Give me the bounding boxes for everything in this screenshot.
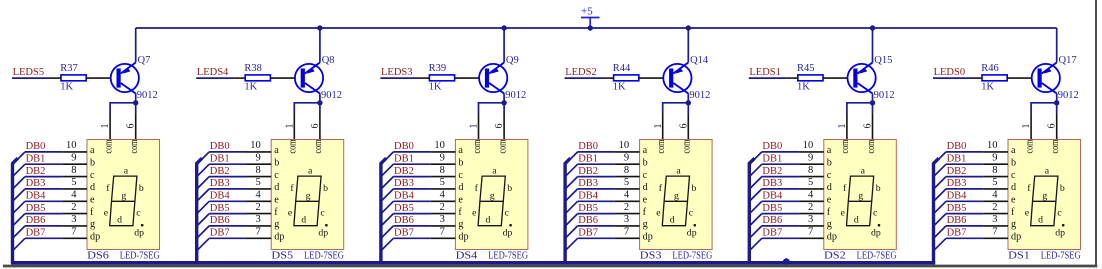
wire R39 right lead to Q9 base <box>455 77 480 79</box>
svg-text:a: a <box>1011 145 1016 156</box>
wire net DB2 <box>578 176 615 178</box>
svg-text:5: 5 <box>992 177 997 188</box>
svg-text:DB4: DB4 <box>394 191 415 202</box>
pin g stub <box>62 225 87 227</box>
wire Q17 collector down <box>1056 94 1058 115</box>
svg-text:LED-7SEG: LED-7SEG <box>672 251 712 262</box>
svg-text:R39: R39 <box>429 63 447 74</box>
svg-text:1: 1 <box>837 124 848 129</box>
svg-text:7: 7 <box>71 227 76 238</box>
svg-text:DB7: DB7 <box>762 228 782 239</box>
svg-text:DB2: DB2 <box>578 166 598 177</box>
wire Q8 collector down <box>319 94 321 115</box>
bus tap DB5 <box>565 214 578 227</box>
svg-text:d: d <box>301 215 306 226</box>
pin 1 com stub <box>293 114 295 140</box>
wire net DB1 <box>25 163 62 165</box>
svg-text:d: d <box>1038 215 1043 226</box>
pin a stub <box>799 151 824 153</box>
wire R38 right lead to Q8 base <box>270 77 295 79</box>
wire net DB0 <box>393 151 430 153</box>
svg-text:4: 4 <box>255 190 261 201</box>
wire Q7 collector down <box>135 94 137 115</box>
transistor Q8 9012 PNP <box>295 55 342 101</box>
wire net DB7 <box>578 237 615 239</box>
svg-text:e: e <box>104 207 109 218</box>
junction rail/Q emitter block 2 <box>317 25 322 30</box>
7seg segment labels <box>841 165 881 238</box>
svg-text:b: b <box>507 183 512 194</box>
wire net DB7 <box>393 237 430 239</box>
resistor R46 1K <box>981 63 1007 93</box>
svg-text:com: com <box>1049 139 1061 153</box>
svg-text:DB1: DB1 <box>947 154 967 165</box>
svg-text:1K: 1K <box>244 82 257 93</box>
svg-text:DB5: DB5 <box>578 203 598 214</box>
wire net DB4 <box>209 200 246 202</box>
svg-text:DB6: DB6 <box>210 215 230 226</box>
bus horizontal bottom <box>11 261 935 265</box>
svg-text:DB4: DB4 <box>578 191 599 202</box>
svg-text:d: d <box>274 182 279 193</box>
svg-text:R37: R37 <box>60 63 78 74</box>
resistor R39 1K <box>429 63 455 93</box>
pin c stub <box>799 176 824 178</box>
bus tap DB3 <box>934 189 947 202</box>
svg-text:6: 6 <box>310 124 321 129</box>
svg-text:LEDS0: LEDS0 <box>934 67 966 78</box>
pin 6 com stub <box>872 114 874 140</box>
pin g stub <box>983 225 1008 227</box>
wire Q17 emitter to +5 rail <box>1056 28 1058 63</box>
7seg digit segments DS4 <box>478 176 505 226</box>
svg-text:c: c <box>1011 170 1016 181</box>
svg-text:4: 4 <box>808 190 814 201</box>
svg-text:9: 9 <box>440 153 445 164</box>
wire R39 left lead <box>418 77 429 79</box>
wire net DB5 <box>209 213 246 215</box>
7seg digit segments DS5 <box>294 176 321 226</box>
pin dp stub <box>247 237 272 239</box>
pin a stub <box>983 151 1008 153</box>
svg-text:e: e <box>274 195 279 206</box>
wire Q8 emitter to +5 rail <box>319 28 321 63</box>
svg-text:d: d <box>643 182 648 193</box>
bus tap DB4 <box>13 201 26 214</box>
wire R37 left lead <box>50 77 61 79</box>
svg-text:DB4: DB4 <box>947 191 968 202</box>
svg-text:g: g <box>643 219 648 230</box>
svg-text:DB3: DB3 <box>578 178 598 189</box>
svg-text:c: c <box>274 170 279 181</box>
svg-text:6: 6 <box>678 124 689 129</box>
svg-text:7: 7 <box>624 227 629 238</box>
pin a stub <box>431 151 456 153</box>
svg-text:LEDS2: LEDS2 <box>565 67 597 78</box>
wire net LEDS0 to R46 <box>933 77 971 79</box>
svg-text:a: a <box>492 165 497 176</box>
svg-text:1: 1 <box>653 124 664 129</box>
svg-text:6: 6 <box>126 124 137 129</box>
svg-text:f: f <box>643 207 647 218</box>
svg-text:a: a <box>676 165 681 176</box>
bus DB vertical block 1 <box>13 158 18 263</box>
svg-text:5: 5 <box>624 177 629 188</box>
bus tap DB0 <box>381 152 394 165</box>
svg-text:4: 4 <box>71 190 77 201</box>
svg-text:b: b <box>90 157 95 168</box>
pin b stub <box>983 163 1008 165</box>
svg-text:10: 10 <box>250 140 261 151</box>
pin 1 com stub <box>846 114 848 140</box>
bus tap DB5 <box>749 214 762 227</box>
pin 6 com stub <box>687 114 689 140</box>
svg-text:b: b <box>876 183 881 194</box>
7-segment display DS6 LED-7SEG body <box>87 140 160 250</box>
pin 1 com stub <box>478 114 480 140</box>
wire net DB3 <box>393 188 430 190</box>
wire net DB3 <box>25 188 62 190</box>
svg-text:DS5: DS5 <box>271 251 293 262</box>
7seg digit segments DS2 <box>847 176 874 226</box>
svg-text:f: f <box>90 207 94 218</box>
svg-text:c: c <box>1057 208 1062 219</box>
svg-text:7: 7 <box>255 227 260 238</box>
svg-text:g: g <box>490 191 495 202</box>
svg-text:LEDS1: LEDS1 <box>749 67 781 78</box>
svg-text:c: c <box>873 208 878 219</box>
wire jumper to com pin 1 <box>847 103 873 114</box>
wire net DB1 <box>762 163 799 165</box>
svg-text:Q7: Q7 <box>138 55 151 66</box>
wire Q14 emitter to +5 rail <box>687 28 689 63</box>
svg-text:c: c <box>505 208 510 219</box>
svg-text:1K: 1K <box>613 82 626 93</box>
svg-text:LED-7SEG: LED-7SEG <box>857 251 897 262</box>
svg-text:8: 8 <box>255 165 260 176</box>
pin f stub <box>983 213 1008 215</box>
svg-text:g: g <box>306 191 311 202</box>
pin g stub <box>431 225 456 227</box>
svg-text:b: b <box>274 157 279 168</box>
svg-text:1: 1 <box>100 124 111 129</box>
wire net DB3 <box>762 188 799 190</box>
svg-text:c: c <box>136 208 141 219</box>
svg-text:LED-7SEG: LED-7SEG <box>120 251 160 262</box>
svg-text:e: e <box>841 207 846 218</box>
wire net DB4 <box>762 200 799 202</box>
bus tap DB2 <box>381 177 394 190</box>
wire net LEDS5 to R37 <box>12 77 50 79</box>
bus tap DB2 <box>565 177 578 190</box>
pin d stub <box>247 188 272 190</box>
svg-text:c: c <box>689 208 694 219</box>
svg-text:DB7: DB7 <box>394 228 414 239</box>
svg-text:DB5: DB5 <box>947 203 967 214</box>
wire net DB3 <box>209 188 246 190</box>
wire net DB1 <box>393 163 430 165</box>
svg-text:9012: 9012 <box>137 90 158 101</box>
svg-text:DB0: DB0 <box>210 141 230 152</box>
svg-text:d: d <box>854 215 859 226</box>
bus tap DB4 <box>749 201 762 214</box>
bus tap DB2 <box>13 177 26 190</box>
svg-text:3: 3 <box>624 214 629 225</box>
svg-text:DS1: DS1 <box>1008 251 1030 262</box>
svg-text:7: 7 <box>440 227 445 238</box>
pin g stub <box>615 225 640 227</box>
svg-text:a: a <box>827 145 832 156</box>
pin g stub <box>247 225 272 227</box>
pin 1 com stub <box>1030 114 1032 140</box>
pin e stub <box>615 200 640 202</box>
bus tap DB7 <box>13 238 26 251</box>
wire net DB6 <box>25 225 62 227</box>
wire net LEDS1 to R45 <box>749 77 787 79</box>
svg-text:dp: dp <box>643 232 653 243</box>
svg-text:9012: 9012 <box>874 90 895 101</box>
svg-text:LEDS5: LEDS5 <box>13 67 44 78</box>
pin 6 com stub <box>503 114 505 140</box>
wire net LEDS3 to R39 <box>380 77 418 79</box>
svg-text:5: 5 <box>440 177 445 188</box>
7seg segment labels <box>288 165 328 238</box>
svg-text:10: 10 <box>803 140 814 151</box>
svg-text:DB0: DB0 <box>578 141 598 152</box>
svg-text:2: 2 <box>255 202 260 213</box>
svg-text:LED-7SEG: LED-7SEG <box>488 251 528 262</box>
bus tap DB7 <box>934 238 947 251</box>
svg-text:DB7: DB7 <box>210 228 230 239</box>
wire R45 left lead <box>787 77 798 79</box>
pin 1 com stub <box>662 114 664 140</box>
svg-text:DB2: DB2 <box>210 166 230 177</box>
bus tap DB3 <box>13 189 26 202</box>
svg-text:DS4: DS4 <box>456 251 479 262</box>
svg-text:9: 9 <box>624 153 629 164</box>
svg-text:dp: dp <box>687 228 697 239</box>
svg-text:DB2: DB2 <box>394 166 414 177</box>
pin dp stub <box>62 237 87 239</box>
wire R38 left lead <box>234 77 245 79</box>
7seg segment labels <box>656 165 696 238</box>
wire net DB0 <box>578 151 615 153</box>
svg-text:g: g <box>274 219 279 230</box>
wire net DB2 <box>946 176 983 178</box>
bus tap DB0 <box>934 152 947 165</box>
svg-text:DB0: DB0 <box>947 141 967 152</box>
junction collector/com jumper <box>870 100 875 105</box>
svg-text:DB2: DB2 <box>762 166 782 177</box>
bus tap DB4 <box>934 201 947 214</box>
svg-text:b: b <box>643 157 648 168</box>
bus tap DB4 <box>197 201 210 214</box>
wire Q15 emitter to +5 rail <box>872 28 874 63</box>
svg-text:6: 6 <box>494 124 505 129</box>
svg-text:DB4: DB4 <box>210 191 231 202</box>
resistor R38 1K <box>244 63 270 93</box>
svg-text:f: f <box>458 207 462 218</box>
svg-text:d: d <box>117 215 122 226</box>
wire net DB2 <box>762 176 799 178</box>
pin 1 com stub <box>109 114 111 140</box>
pin d stub <box>799 188 824 190</box>
pin b stub <box>615 163 640 165</box>
svg-text:DB7: DB7 <box>947 228 967 239</box>
pin dp stub <box>799 237 824 239</box>
svg-text:d: d <box>1011 182 1016 193</box>
svg-text:d: d <box>458 182 463 193</box>
wire Q9 emitter to +5 rail <box>503 28 505 63</box>
wire net DB7 <box>762 237 799 239</box>
svg-text:6: 6 <box>863 124 874 129</box>
svg-text:2: 2 <box>624 202 629 213</box>
svg-text:9: 9 <box>255 153 260 164</box>
svg-text:c: c <box>827 170 832 181</box>
svg-text:DB6: DB6 <box>578 215 598 226</box>
svg-text:8: 8 <box>624 165 629 176</box>
pin c stub <box>247 176 272 178</box>
svg-text:dp: dp <box>90 232 100 243</box>
svg-text:com: com <box>681 139 693 153</box>
bus tap DB1 <box>197 164 210 177</box>
svg-text:com: com <box>655 139 667 153</box>
svg-text:a: a <box>458 145 463 156</box>
pin c stub <box>615 176 640 178</box>
pin d stub <box>983 188 1008 190</box>
bus tap DB1 <box>13 164 26 177</box>
junction rail/Q emitter block 4 <box>686 25 691 30</box>
wire Q14 collector down <box>687 94 689 115</box>
pin dp stub <box>431 237 456 239</box>
transistor Q14 9012 PNP <box>663 55 710 101</box>
transistor Q17 9012 PNP <box>1032 55 1079 101</box>
bus tap DB5 <box>13 214 26 227</box>
pin dp stub <box>983 237 1008 239</box>
svg-text:DB5: DB5 <box>26 203 46 214</box>
resistor R45 1K <box>797 63 823 93</box>
svg-text:1K: 1K <box>981 82 994 93</box>
pin f stub <box>431 213 456 215</box>
pin b stub <box>62 163 87 165</box>
svg-text:LEDS3: LEDS3 <box>381 67 413 78</box>
svg-text:DB0: DB0 <box>762 141 782 152</box>
svg-text:DB6: DB6 <box>394 215 414 226</box>
svg-text:DB7: DB7 <box>26 228 46 239</box>
wire jumper to com pin 1 <box>663 103 689 114</box>
svg-text:dp: dp <box>134 228 144 239</box>
pin c stub <box>62 176 87 178</box>
bus tap DB2 <box>934 177 947 190</box>
svg-text:DB1: DB1 <box>762 154 782 165</box>
svg-text:DB4: DB4 <box>762 191 783 202</box>
pin c stub <box>431 176 456 178</box>
bus tap DB2 <box>749 177 762 190</box>
junction collector/com jumper <box>686 100 691 105</box>
7-segment display DS4 LED-7SEG body <box>455 140 528 250</box>
svg-text:1: 1 <box>469 124 480 129</box>
svg-text:9012: 9012 <box>321 90 342 101</box>
pin d stub <box>615 188 640 190</box>
bus tap DB7 <box>197 238 210 251</box>
wire net DB5 <box>762 213 799 215</box>
svg-text:DB1: DB1 <box>394 154 414 165</box>
svg-text:5: 5 <box>255 177 260 188</box>
transistor Q7 9012 PNP <box>111 55 158 101</box>
resistor R44 1K <box>613 63 639 93</box>
svg-text:10: 10 <box>66 140 77 151</box>
svg-text:b: b <box>1060 183 1065 194</box>
bus tap DB5 <box>934 214 947 227</box>
svg-text:a: a <box>274 145 279 156</box>
svg-text:DB3: DB3 <box>394 178 414 189</box>
svg-text:com: com <box>1023 139 1035 153</box>
svg-text:dp: dp <box>503 228 513 239</box>
svg-text:dp: dp <box>827 232 837 243</box>
wire Q7 emitter to +5 rail <box>135 28 137 63</box>
bus tap DB3 <box>381 189 394 202</box>
svg-text:g: g <box>827 219 832 230</box>
bus tap DB6 <box>197 226 210 239</box>
svg-text:com: com <box>471 139 483 153</box>
svg-text:1: 1 <box>284 124 295 129</box>
wire jumper to com pin 1 <box>110 103 136 114</box>
svg-text:c: c <box>90 170 95 181</box>
svg-text:b: b <box>139 183 144 194</box>
wire net LEDS2 to R44 <box>565 77 603 79</box>
svg-text:R38: R38 <box>244 63 262 74</box>
bus tap DB7 <box>565 238 578 251</box>
wire net DB6 <box>946 225 983 227</box>
svg-text:2: 2 <box>71 202 76 213</box>
svg-text:g: g <box>1042 191 1047 202</box>
transistor Q9 9012 PNP <box>479 55 526 101</box>
junction collector/com jumper <box>501 100 506 105</box>
junction rail/Q emitter block 3 <box>501 25 506 30</box>
svg-text:R44: R44 <box>613 63 631 74</box>
svg-text:Q8: Q8 <box>322 55 335 66</box>
bus tap DB3 <box>197 189 210 202</box>
svg-text:a: a <box>861 165 866 176</box>
resistor R37 1K <box>60 63 86 93</box>
wire net DB0 <box>209 151 246 153</box>
7-segment display DS1 LED-7SEG body <box>1008 140 1081 250</box>
pin d stub <box>431 188 456 190</box>
svg-text:g: g <box>90 219 95 230</box>
pin f stub <box>247 213 272 215</box>
svg-text:d: d <box>90 182 95 193</box>
wire net DB0 <box>946 151 983 153</box>
svg-text:DS3: DS3 <box>640 251 662 262</box>
svg-text:DB3: DB3 <box>26 178 46 189</box>
svg-text:DB3: DB3 <box>947 178 967 189</box>
wire net DB1 <box>209 163 246 165</box>
wire net DB2 <box>25 176 62 178</box>
svg-text:e: e <box>643 195 648 206</box>
svg-text:Q15: Q15 <box>874 55 892 66</box>
svg-text:b: b <box>692 183 697 194</box>
pin dp stub <box>615 237 640 239</box>
bottom window shadow line <box>3 265 1097 268</box>
svg-text:DB1: DB1 <box>210 154 230 165</box>
svg-text:DB3: DB3 <box>762 178 782 189</box>
svg-text:LEDS4: LEDS4 <box>197 67 229 78</box>
svg-text:3: 3 <box>71 214 76 225</box>
bus DB vertical block 3 <box>381 158 386 263</box>
svg-text:e: e <box>1025 207 1030 218</box>
svg-text:com: com <box>839 139 851 153</box>
wire jumper to com pin 1 <box>1031 103 1057 114</box>
